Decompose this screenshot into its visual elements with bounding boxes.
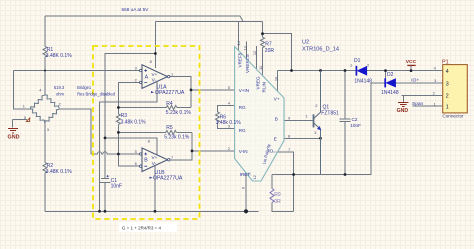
- diode D1: [356, 66, 366, 76]
- svg-text:RG: RG: [239, 128, 246, 133]
- svg-text:VREF5: VREF5: [238, 52, 243, 67]
- wire V+ rail to D1: [278, 70, 356, 72]
- svg-text:Connector: Connector: [442, 113, 464, 118]
- wire U2 pin13 stub: [246, 42, 248, 60]
- wire top rail 5V: [45, 16, 243, 21]
- svg-text:E: E: [274, 136, 277, 141]
- svg-text:R9: R9: [274, 192, 281, 198]
- svg-text:3: 3: [47, 127, 49, 132]
- svg-text:6: 6: [135, 161, 137, 166]
- svg-text:10nF: 10nF: [350, 123, 361, 128]
- wire V+ branch to C1: [105, 54, 155, 179]
- svg-text:0R: 0R: [274, 199, 281, 205]
- capacitor C2: [340, 71, 351, 175]
- wire U1A V- pin4 to ground rail: [100, 82, 158, 212]
- svg-text:R5: R5: [166, 125, 173, 131]
- svg-text:9: 9: [288, 116, 290, 121]
- transistor Q1: [314, 71, 321, 175]
- svg-text:B: B: [275, 116, 278, 121]
- svg-text:1: 1: [306, 113, 308, 118]
- svg-text:7: 7: [288, 147, 290, 152]
- svg-text:FZT851: FZT851: [321, 110, 339, 116]
- wire D1 anode to connector pin4: [367, 70, 443, 72]
- resistor R9 zigzag: [270, 189, 274, 203]
- svg-text:1: 1: [446, 105, 449, 111]
- svg-text:2: 2: [367, 63, 369, 68]
- svg-text:C2: C2: [352, 117, 358, 122]
- svg-text:1N4148: 1N4148: [354, 79, 372, 85]
- ground symbol GND (earth): [8, 128, 18, 133]
- resistor R3: [117, 108, 119, 114]
- svg-text:OPA2277UA: OPA2277UA: [153, 175, 183, 181]
- wire U1A pin2: [118, 83, 139, 108]
- IRET pin connection mark: [248, 172, 251, 175]
- svg-text:R3: R3: [121, 113, 128, 119]
- svg-text:3.48K 0.1%: 3.48K 0.1%: [46, 53, 72, 59]
- svg-text:Bridge1: Bridge1: [77, 85, 92, 90]
- svg-text:1N4148: 1N4148: [381, 90, 399, 96]
- svg-text:2: 2: [135, 78, 137, 83]
- wire bridge pin2 to U1B pin5 (with hops): [60, 109, 92, 154]
- resistor R5: [118, 131, 165, 133]
- wire D2 cathode branch: [371, 71, 386, 83]
- svg-text:3: 3: [314, 130, 316, 135]
- svg-text:8: 8: [148, 139, 150, 144]
- svg-text:IO+: IO+: [411, 77, 419, 83]
- svg-text:1: 1: [434, 101, 436, 106]
- svg-text:RG: RG: [239, 105, 246, 110]
- svg-text:XTR106_D_14: XTR106_D_14: [302, 47, 339, 53]
- wire R2 bottom to rail: [44, 173, 46, 211]
- wire VREG node over to V+ rail: [263, 34, 292, 71]
- svg-text:P1: P1: [442, 59, 449, 65]
- resistor R9 leads: [271, 175, 273, 189]
- wire VCC stub: [410, 66, 412, 71]
- svg-text:V-: V-: [152, 77, 157, 82]
- svg-text:RLIN: RLIN: [261, 82, 266, 92]
- svg-text:V+: V+: [274, 97, 280, 102]
- wire R1 bottom to bridge node: [44, 57, 46, 71]
- svg-text:8: 8: [150, 59, 152, 64]
- svg-text:V-IN: V-IN: [239, 149, 248, 154]
- svg-text:2: 2: [433, 90, 435, 95]
- svg-text:R2: R2: [47, 163, 54, 169]
- svg-text:13: 13: [242, 46, 247, 50]
- svg-text:B: B: [144, 158, 148, 164]
- wire U2 pin12 stub: [256, 46, 258, 69]
- wire U2 pin14 stub: [238, 21, 240, 51]
- wire IRET pin6 down to rail: [245, 173, 247, 211]
- gain formula: [119, 222, 178, 232]
- bridge Bridge1 (diamond of four zigzag resistors): [29, 94, 60, 124]
- wire bridge top stub: [44, 71, 46, 96]
- svg-text:11: 11: [258, 66, 263, 70]
- svg-text:5: 5: [228, 85, 230, 90]
- wire D2 anode to connector pin3: [396, 82, 443, 84]
- resistor R6: [218, 106, 235, 112]
- wire return rail mid: [272, 83, 371, 175]
- wire bottom ground rail: [45, 210, 259, 212]
- svg-text:V+: V+: [152, 155, 158, 160]
- svg-text:4: 4: [446, 69, 449, 75]
- svg-text:20R: 20R: [265, 48, 275, 54]
- svg-text:668 uA at 5V: 668 uA at 5V: [122, 7, 150, 12]
- capacitor C1: [100, 178, 111, 211]
- svg-text:V+IN: V+IN: [239, 88, 249, 93]
- svg-text:V-: V-: [152, 161, 157, 166]
- power port GND (arrow style): [398, 103, 409, 107]
- svg-text:A: A: [145, 74, 149, 80]
- svg-text:1: 1: [23, 104, 25, 109]
- svg-text:R7: R7: [265, 41, 272, 47]
- wire R3/R5 node to U1B pin6: [118, 132, 139, 166]
- svg-text:3: 3: [446, 81, 449, 87]
- svg-text:U2: U2: [302, 40, 309, 46]
- svg-text:12: 12: [252, 51, 257, 55]
- svg-text:519.3: 519.3: [54, 85, 65, 90]
- svg-text:2: 2: [228, 146, 230, 151]
- wire U2 pin7 IO down to rail: [273, 152, 294, 212]
- svg-text:12: 12: [252, 175, 257, 179]
- svg-text:5: 5: [135, 149, 137, 154]
- wire U2 pin9 B to Q1 base: [284, 120, 314, 122]
- svg-text:7: 7: [171, 155, 173, 160]
- svg-text:3.48K 0.1%: 3.48K 0.1%: [46, 169, 72, 175]
- svg-text:V+: V+: [152, 72, 158, 77]
- connector P1: [442, 59, 467, 118]
- svg-text:10nF: 10nF: [111, 184, 122, 190]
- svg-text:GND: GND: [8, 135, 20, 141]
- wire U2 pin8 E to Q1 emitter: [284, 137, 321, 139]
- wire second rail (op-amp V+): [156, 20, 263, 22]
- svg-text:2: 2: [446, 94, 449, 100]
- wire U1B V- stub to rail: [154, 166, 156, 212]
- svg-text:GND: GND: [397, 108, 409, 114]
- wire U1B output to V-IN: [168, 132, 193, 159]
- wire connector pin2 to GND: [402, 96, 443, 102]
- wire U2 pin10 stub: [277, 71, 279, 92]
- svg-text:D2: D2: [387, 72, 394, 78]
- gain block dashed outline: [93, 46, 200, 219]
- svg-text:OPA2277UA: OPA2277UA: [155, 90, 185, 96]
- IC U2 XTR106 body: [235, 47, 284, 182]
- svg-text:5.23k 0.1%: 5.23k 0.1%: [166, 110, 192, 116]
- svg-text:5.23k 0.1%: 5.23k 0.1%: [164, 134, 190, 140]
- resistor R4: [118, 107, 166, 109]
- svg-text:3.48k 0.1%: 3.48k 0.1%: [121, 120, 147, 126]
- wire R1 top: [44, 16, 46, 46]
- wire Span to connector pin1: [412, 105, 442, 107]
- svg-text:1: 1: [171, 72, 173, 77]
- svg-text:R4: R4: [166, 101, 173, 107]
- power port VCC: [406, 59, 417, 65]
- resistor R2: [43, 163, 47, 174]
- svg-text:IRET: IRET: [240, 172, 251, 177]
- wire U1A V+ pin8 riser: [154, 21, 156, 68]
- svg-text:5: 5: [24, 115, 26, 120]
- wire U1A output to V+IN: [168, 77, 192, 108]
- bridge pin5 arrow marker: [26, 118, 30, 122]
- svg-text:VCC: VCC: [406, 59, 417, 65]
- svg-text:VREG: VREG: [255, 76, 260, 89]
- svg-text:Span: Span: [412, 101, 424, 107]
- resistor R1: [43, 46, 47, 57]
- op-amp U1B: [140, 148, 170, 172]
- wire bridge bottom to R2: [44, 123, 46, 163]
- svg-text:VREF2.5: VREF2.5: [245, 54, 250, 73]
- svg-text:3: 3: [228, 124, 230, 129]
- resistor R7 string: [262, 21, 264, 37]
- svg-text:6: 6: [241, 187, 246, 189]
- svg-text:D1: D1: [354, 58, 361, 64]
- diode D2: [385, 78, 395, 87]
- svg-text:ohm: ohm: [56, 91, 65, 96]
- svg-text:1: 1: [350, 63, 352, 68]
- wire left drop to bridge pin1: [14, 71, 31, 110]
- wire bridge+ to U1A pin3: [14, 70, 140, 72]
- wire GND stub to bridge pin5: [13, 120, 28, 128]
- svg-text:G = 1 + 2R4/R3 = 4: G = 1 + 2R4/R3 = 4: [122, 226, 162, 231]
- svg-text:8: 8: [288, 133, 290, 138]
- svg-text:3: 3: [434, 78, 436, 83]
- svg-text:2: 2: [315, 103, 317, 108]
- U2 top pin names (rotated): [238, 52, 267, 92]
- svg-text:3: 3: [135, 65, 137, 70]
- op-amp U1A: [140, 65, 170, 89]
- wire V+ link to U1B pin8: [105, 138, 157, 155]
- svg-text:2: 2: [59, 101, 61, 106]
- svg-text:Res Bridge_disabled: Res Bridge_disabled: [77, 92, 116, 97]
